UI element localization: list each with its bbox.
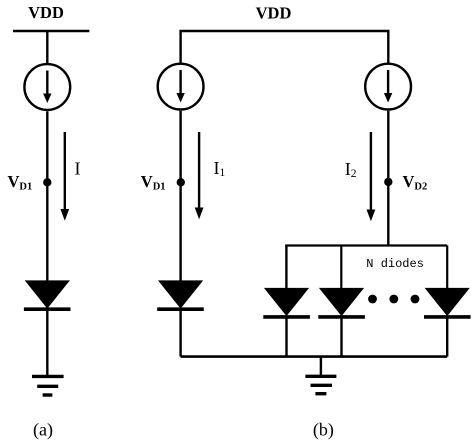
- wire: current source I2 to diode array (b): [387, 111, 389, 246]
- wire: current source I1 to diode D1 (b): [179, 111, 181, 281]
- wire: diode C to bottom bus (b): [446, 318, 448, 357]
- current source I2 (b): [365, 64, 411, 110]
- svg-text:(a): (a): [33, 420, 53, 441]
- diode array box left edge (b): [340, 246, 342, 289]
- wire: diode D1 to bottom bus (b): [179, 311, 181, 357]
- VDD rail (circuit a): [13, 30, 89, 32]
- diode array top bus (b): [285, 244, 447, 246]
- wire: VDD rail to current source (a): [46, 31, 48, 64]
- node VD1 (b): [177, 178, 185, 186]
- svg-text:I: I: [75, 159, 81, 179]
- svg-text:(b): (b): [313, 420, 334, 441]
- diode D1 (b): [157, 280, 204, 309]
- svg-text:VDD: VDD: [256, 4, 292, 23]
- diode B of array (b): [318, 288, 365, 317]
- ellipsis dots (b): [368, 295, 419, 304]
- node VD2 (b): [384, 178, 392, 186]
- diode array box right edge (b): [446, 246, 448, 289]
- wire: diode A to bottom bus (b): [285, 318, 287, 357]
- node VD1 (a): [43, 178, 51, 186]
- current source I (a): [24, 64, 70, 110]
- current direction arrow I2 (b): [367, 132, 376, 221]
- ground (a): [32, 376, 64, 395]
- current direction arrow I (a): [60, 132, 69, 221]
- wire: current source to diode (a): [46, 111, 48, 281]
- diode D1 (a): [24, 280, 71, 309]
- wire: bottom bus to ground (b): [320, 357, 322, 376]
- VDD rail (circuit b): [181, 31, 389, 63]
- current source I1 (b): [158, 64, 204, 110]
- diode C of array (b): [424, 288, 471, 317]
- svg-text:VDD: VDD: [28, 3, 64, 22]
- wire: diode to ground (a): [46, 311, 48, 376]
- wire: top bus to diode A (b): [285, 246, 287, 289]
- svg-text:N diodes: N diodes: [366, 257, 424, 271]
- wire: diode B to bottom bus (b): [340, 318, 342, 357]
- current direction arrow I1 (b): [195, 132, 204, 219]
- bottom bus (b): [181, 355, 448, 358]
- ground (b): [305, 376, 336, 393]
- diode A of array (b): [263, 288, 310, 317]
